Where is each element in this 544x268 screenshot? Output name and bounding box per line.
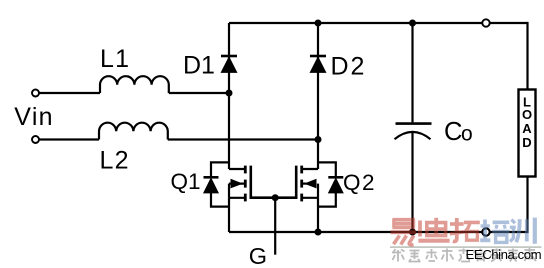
transistor Q2 xyxy=(275,166,318,232)
svg-text:EEChina.com: EEChina.com xyxy=(466,247,542,262)
svg-text:D2: D2 xyxy=(331,52,367,80)
diode D2 xyxy=(310,56,326,72)
svg-text:o: o xyxy=(461,122,473,145)
watermark subtitle gray chars xyxy=(392,248,537,262)
wire input top xyxy=(39,92,100,94)
svg-text:Q2: Q2 xyxy=(343,170,376,195)
transistor Q1 xyxy=(229,166,275,232)
watermark char pei xyxy=(480,220,509,243)
svg-text:D: D xyxy=(522,135,531,150)
capacitor C0 xyxy=(395,124,432,140)
junction Q2 source bottom rail xyxy=(315,229,322,236)
wire top rail xyxy=(229,22,528,24)
svg-text:Q1: Q1 xyxy=(171,169,201,194)
wire D1 column xyxy=(228,23,230,169)
node B junction L2-D2 xyxy=(315,136,322,143)
diode D1 xyxy=(221,56,237,72)
watermark char yi xyxy=(391,220,417,245)
diode Q2 body xyxy=(318,162,343,206)
svg-text:A: A xyxy=(522,121,532,136)
junction C0 bottom rail xyxy=(409,229,416,236)
junction D2 top rail xyxy=(315,20,322,27)
inductor L1 xyxy=(100,76,169,93)
wire input bottom xyxy=(39,138,99,140)
svg-text:D1: D1 xyxy=(183,52,215,80)
wire bottom rail xyxy=(229,231,528,233)
terminal output top xyxy=(482,19,489,26)
svg-text:Vin: Vin xyxy=(14,103,54,131)
wire gate line xyxy=(274,198,276,255)
svg-text:O: O xyxy=(522,107,532,122)
junction gate node xyxy=(272,194,279,201)
load text xyxy=(522,95,532,151)
wire right column lower xyxy=(526,176,528,233)
wire Co column bottom xyxy=(411,131,413,232)
watermark char tuo xyxy=(450,218,480,241)
wire right column upper xyxy=(526,22,528,90)
svg-text:G: G xyxy=(249,243,267,268)
svg-text:L2: L2 xyxy=(100,146,130,174)
svg-text:C: C xyxy=(444,118,462,146)
terminal output bottom xyxy=(482,228,489,235)
inductor L2 xyxy=(99,123,168,140)
terminal Vin top xyxy=(32,90,39,97)
watermark char xun xyxy=(510,218,535,244)
watermark char di xyxy=(418,218,449,241)
diode Q1 body xyxy=(204,162,230,206)
load box xyxy=(519,90,536,177)
junction C0 top rail xyxy=(409,20,416,27)
node A junction L1-D1 xyxy=(226,90,233,97)
svg-text:L1: L1 xyxy=(100,45,130,73)
wire Co column top xyxy=(411,23,413,122)
watermark underline xyxy=(390,246,542,248)
terminal Vin bottom xyxy=(32,136,39,143)
wire L1 to node A xyxy=(169,92,229,94)
wire L2 to node B xyxy=(168,138,318,140)
wire D2 column xyxy=(317,23,319,169)
